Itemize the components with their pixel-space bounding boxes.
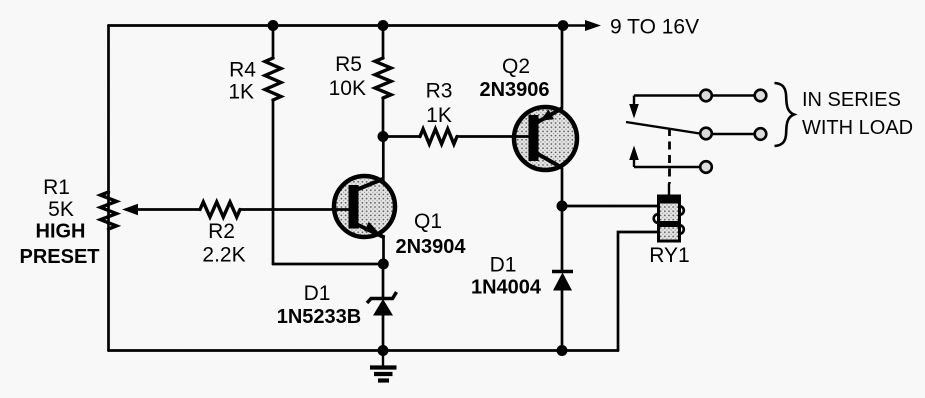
transistor Q1 2N3904 xyxy=(334,176,395,238)
resistor R4 xyxy=(265,58,281,100)
wire node B to R3 xyxy=(383,135,420,138)
wire bottom ground rail xyxy=(109,349,619,352)
relay actuator dashed link xyxy=(668,128,671,184)
wire R4 to Q1 emitter node xyxy=(273,263,383,266)
transistor Q2 2N3906 xyxy=(514,107,577,170)
zener diode D1 1N5233B xyxy=(367,292,397,316)
diode D1 1N4004 xyxy=(552,272,573,291)
wire R2 to Q1 base xyxy=(240,208,350,211)
wire D1 1N4004 top lead xyxy=(561,206,564,271)
node: R5 / R3 / Q1 collector junction xyxy=(378,131,389,142)
wire R3 to Q2 base xyxy=(457,135,529,138)
wire Q1 emitter lead xyxy=(382,237,385,265)
wire zener top lead xyxy=(382,264,385,299)
resistor R3 xyxy=(420,129,457,144)
wire D1 1N4004 bottom lead xyxy=(561,290,564,351)
wire top supply rail xyxy=(109,24,564,27)
ground xyxy=(370,351,397,381)
wire contact link row 2 xyxy=(712,133,755,135)
wire contact link row 1 xyxy=(712,94,755,96)
node: D1 / bottom rail junction xyxy=(557,345,568,356)
wire Q2 collector to relay xyxy=(562,205,659,208)
supply arrow 9-16V xyxy=(563,20,601,31)
wire R5 bottom lead xyxy=(382,98,385,137)
switch contacts (DPDT in series with load) xyxy=(626,96,755,168)
potentiometer R1 xyxy=(101,192,117,229)
wire switch pole 2 feed xyxy=(634,166,700,168)
switch pole 2 arrow xyxy=(629,146,639,168)
brace xyxy=(775,83,795,146)
wire R1 wiper arm xyxy=(137,208,200,211)
wire R4 bottom lead xyxy=(272,100,275,264)
wire R5 top lead xyxy=(382,26,385,59)
resistor R5 xyxy=(375,58,391,98)
contact terminal circles xyxy=(700,90,766,173)
wire R4 top lead xyxy=(272,26,275,59)
node: Q1 emitter junction xyxy=(378,259,389,270)
wire relay return to ground rail xyxy=(618,232,659,351)
node: top rail / R5 junction xyxy=(378,20,389,31)
wire switch pole 1 feed xyxy=(634,94,700,96)
switch blade xyxy=(626,122,703,134)
resistor R2 xyxy=(200,202,240,217)
node: zener / ground junction xyxy=(378,345,389,356)
wire Q2 emitter to supply xyxy=(561,26,564,109)
node: top rail / Q2 emitter junction xyxy=(558,20,569,31)
wire left vertical rail xyxy=(107,26,110,351)
wire zener bottom lead xyxy=(382,315,385,351)
switch pole 1 arrow xyxy=(629,96,639,119)
R1 wiper arrowhead xyxy=(122,204,138,215)
relay RY1 xyxy=(654,184,684,242)
node: Q2 collector / relay / D1 junction xyxy=(557,201,568,212)
wire Q2 collector lead xyxy=(561,168,564,206)
node: top rail / R4 junction xyxy=(268,20,279,31)
wire Q1 collector lead xyxy=(382,137,385,181)
